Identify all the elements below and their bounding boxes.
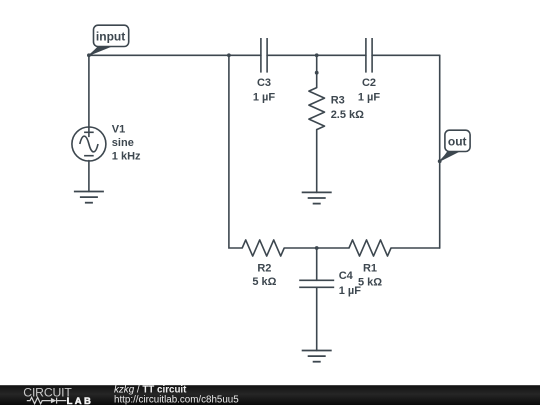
- svg-text:1 µF: 1 µF: [253, 91, 276, 103]
- label C4 value: C4 / 1 uF: [339, 270, 362, 297]
- wire input node to C3 left plate: [89, 54, 261, 56]
- label R2 value: R2 / 5 kOhm: [252, 262, 276, 288]
- wire V1 bottom to ground: [88, 161, 90, 192]
- junction dot R3 top terminal: [315, 71, 319, 75]
- CircuitLab logo wordmark LAB: [67, 396, 94, 405]
- wire C4 bottom plate to ground: [316, 287, 318, 350]
- wire C2 right plate to top-right corner: [372, 54, 440, 56]
- wire C3 right plate to middle junction: [267, 54, 317, 56]
- resistor R3: [309, 88, 325, 130]
- svg-text:V1: V1: [112, 123, 125, 135]
- CircuitLab logo wordmark CIRCUIT: [23, 386, 72, 400]
- svg-text:http://circuitlab.com/c8h5uu5: http://circuitlab.com/c8h5uu5: [114, 395, 239, 405]
- junction dot left branch on top wire: [227, 53, 231, 57]
- label R3 value: R3 / 2.5 kOhm: [331, 95, 364, 121]
- node flag "out": [439, 130, 470, 161]
- svg-text:C4: C4: [339, 270, 354, 282]
- wire bottom junction down to C4 top plate: [316, 248, 318, 280]
- footer bar: [0, 385, 540, 405]
- junction dot out node: [438, 159, 442, 163]
- wire R3 bottom to ground: [316, 130, 318, 193]
- voltage source V1: [72, 127, 106, 161]
- wire R2 right terminal to bottom junction: [284, 247, 317, 249]
- footer url text: [114, 395, 239, 405]
- svg-text:5 kΩ: 5 kΩ: [358, 277, 382, 289]
- svg-text:5 kΩ: 5 kΩ: [252, 276, 276, 288]
- junction dot middle on top wire: [315, 53, 319, 57]
- ground under C4: [302, 351, 332, 362]
- footer title text: kzkg / TT circuit: [114, 385, 187, 396]
- label V1 value: V1 / sine / 1 kHz: [112, 123, 141, 162]
- wire right vertical (out net): [439, 55, 441, 248]
- svg-text:LAB: LAB: [67, 396, 94, 405]
- CircuitLab logo wire-resistor-diode glyph: [27, 397, 67, 403]
- label C3 value: C3 / 1 uF: [253, 77, 276, 103]
- wire bottom junction to R1 left terminal: [317, 247, 349, 249]
- svg-text:input: input: [96, 29, 125, 43]
- svg-text:R1: R1: [363, 262, 377, 274]
- junction dot at input node: [87, 53, 91, 57]
- capacitor C3: [261, 38, 267, 73]
- svg-text:1 kHz: 1 kHz: [112, 151, 141, 163]
- svg-text:CIRCUIT: CIRCUIT: [23, 386, 72, 400]
- capacitor C2: [366, 38, 372, 73]
- svg-text:C3: C3: [257, 77, 271, 89]
- wire left vertical branch: [229, 55, 242, 248]
- wire input node down to V1 top: [88, 55, 90, 127]
- wire R1 right terminal to bottom-right corner: [391, 247, 440, 249]
- svg-text:sine: sine: [112, 137, 134, 149]
- wire middle junction to C2 left plate: [317, 54, 366, 56]
- ground under V1: [74, 192, 104, 203]
- svg-text:1 µF: 1 µF: [358, 91, 381, 103]
- resistor R2: [242, 240, 284, 256]
- wire middle junction down to R3 top: [316, 55, 318, 87]
- label C2 value: C2 / 1 uF: [358, 77, 381, 103]
- svg-text:R3: R3: [331, 95, 345, 107]
- node flag "input": [89, 25, 129, 55]
- svg-text:C2: C2: [362, 77, 376, 89]
- svg-text:2.5 kΩ: 2.5 kΩ: [331, 109, 364, 121]
- svg-text:R2: R2: [257, 262, 271, 274]
- capacitor C4: [299, 280, 334, 287]
- junction dot bottom wire at C4: [315, 246, 319, 250]
- svg-text:out: out: [448, 134, 467, 148]
- ground under R3: [302, 192, 332, 203]
- svg-text:1 µF: 1 µF: [339, 285, 362, 297]
- resistor R1: [349, 240, 391, 256]
- label R1 value: R1 / 5 kOhm: [358, 262, 382, 288]
